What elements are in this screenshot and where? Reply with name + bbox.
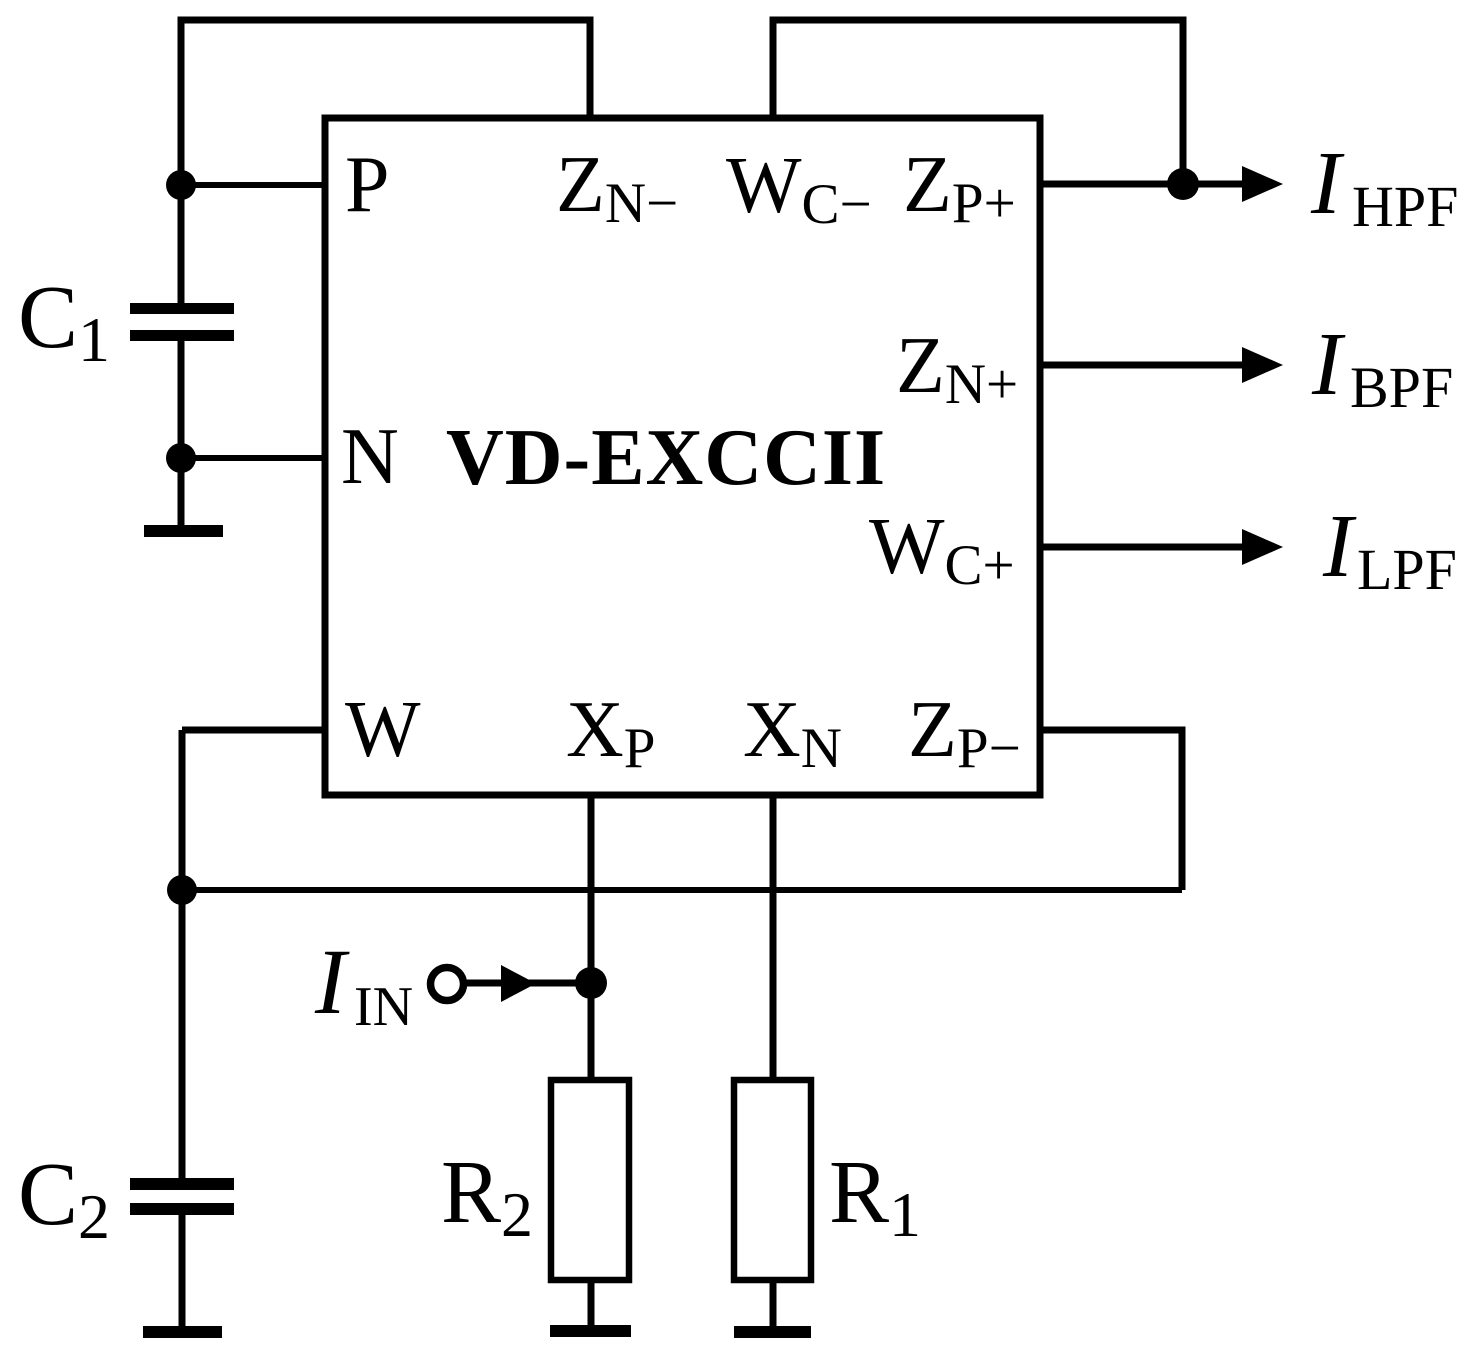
svg-text:P: P <box>345 141 390 229</box>
svg-text:IN: IN <box>354 976 413 1038</box>
svg-text:I: I <box>1311 315 1346 414</box>
svg-text:BPF: BPF <box>1350 355 1453 420</box>
svg-text:HPF: HPF <box>1352 174 1458 239</box>
svg-text:VD-EXCCII: VD-EXCCII <box>446 414 886 502</box>
svg-text:LPF: LPF <box>1357 537 1457 602</box>
svg-text:I: I <box>314 931 350 1034</box>
svg-text:N: N <box>341 413 399 501</box>
svg-text:W: W <box>345 686 421 774</box>
svg-text:I: I <box>1310 134 1345 233</box>
svg-text:I: I <box>1322 497 1357 596</box>
